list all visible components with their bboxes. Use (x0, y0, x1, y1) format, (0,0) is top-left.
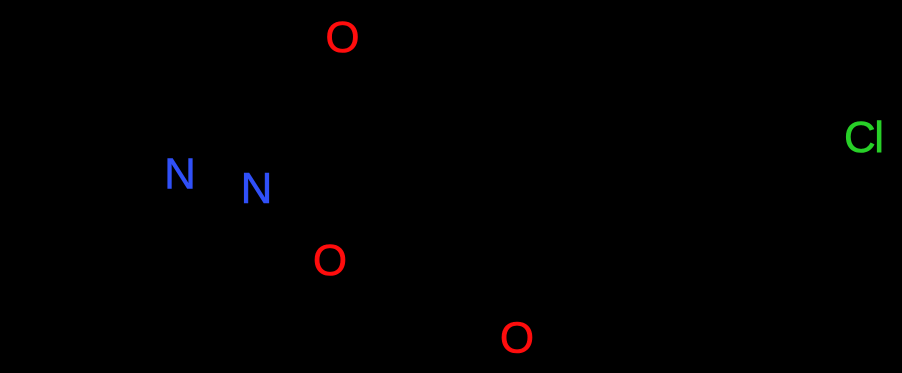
bond N2-C4 (268, 118, 305, 168)
bond C4=O1 second line (317, 63, 340, 109)
svg-text:O: O (500, 314, 534, 363)
bond C4=O1 main line (305, 58, 333, 118)
svg-text:O: O (325, 13, 359, 62)
bond N2-O2 (266, 196, 312, 241)
bond CH3-N1 (82, 185, 164, 245)
bond C7=O3 second line (548, 239, 579, 304)
bond N1-N2 (197, 176, 239, 184)
chain O2-C5-C6-Cl with sharp peak vertex (347, 100, 842, 249)
svg-text:Cl: Cl (844, 113, 883, 162)
svg-text:N: N (241, 164, 273, 213)
bond C7=O3 main line (528, 232, 571, 317)
svg-text:O: O (313, 236, 347, 285)
bond C6-C7 to ketone carbon (571, 193, 768, 232)
svg-text:N: N (164, 150, 196, 199)
